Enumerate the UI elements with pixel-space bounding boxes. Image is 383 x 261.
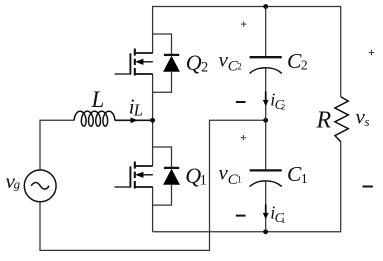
wire left rail mid (Q2 source to node A to Q1 drain) (152, 74, 154, 166)
label vs (356, 105, 370, 130)
sine wave inside vg (31, 183, 49, 190)
voltage source vg circle (24, 170, 56, 202)
node dot cap midpoint (263, 118, 268, 123)
MOSFET Q1 (115, 162, 153, 189)
inductor L coil (74, 111, 115, 126)
wire vg bottom lead (40, 120, 266, 250)
current arrow iC2 (263, 92, 269, 107)
wire inductor left lead (40, 120, 74, 170)
capacitor C2 (250, 57, 282, 73)
label iC1 (270, 203, 285, 227)
svg-text:1: 1 (237, 175, 242, 185)
svg-text:C: C (287, 162, 302, 186)
label iL (129, 94, 143, 119)
label C1 (287, 162, 308, 186)
svg-text:C: C (287, 49, 302, 73)
resistor R (335, 97, 348, 142)
capacitor C1 (250, 170, 282, 186)
wire C2 bottom lead (265, 69, 267, 121)
wire C1 bottom lead (265, 182, 267, 232)
label Q1 (185, 163, 207, 188)
label vg (6, 169, 21, 193)
svg-text:2: 2 (201, 59, 208, 75)
wire C1 top lead (265, 120, 267, 170)
svg-text:R: R (316, 108, 332, 134)
current arrow iC1 (263, 205, 269, 220)
label iC2 (270, 90, 285, 113)
current arrow iL (131, 118, 138, 124)
node dot top (C2 top junction) (263, 4, 268, 9)
node dot bottom (C1 bottom junction) (263, 229, 268, 234)
svg-text:s: s (365, 114, 370, 129)
plus sign C1 (241, 135, 246, 140)
wire top rail (153, 7, 341, 97)
minus sign vs (363, 186, 373, 188)
body diode of Q1 (153, 147, 180, 205)
label Q2 (186, 50, 209, 75)
svg-text:2: 2 (237, 62, 242, 72)
svg-text:Q: Q (186, 50, 202, 75)
label vC1 (219, 161, 242, 188)
svg-text:2: 2 (281, 102, 285, 112)
wire right rail lower (153, 142, 341, 232)
plus sign C2 (241, 21, 246, 26)
MOSFET Q2 (115, 49, 153, 76)
svg-text:g: g (14, 176, 21, 191)
svg-text:1: 1 (301, 171, 308, 186)
plus sign vs (369, 50, 374, 55)
minus sign C2 (236, 101, 246, 103)
svg-text:L: L (133, 100, 143, 119)
wire C2 top lead (265, 7, 267, 58)
wire left rail bottom (Q1 source down) (152, 187, 154, 232)
svg-text:1: 1 (200, 172, 207, 188)
svg-text:2: 2 (301, 58, 308, 73)
minus sign C1 (236, 215, 246, 217)
svg-text:1: 1 (281, 215, 285, 225)
label C2 (287, 49, 308, 73)
node A dot (inductor / bridge midpoint) (150, 118, 155, 123)
label vC2 (219, 48, 242, 75)
svg-text:L: L (91, 87, 105, 112)
body diode of Q2 (153, 34, 180, 92)
wire inductor right lead to node A (115, 119, 153, 121)
